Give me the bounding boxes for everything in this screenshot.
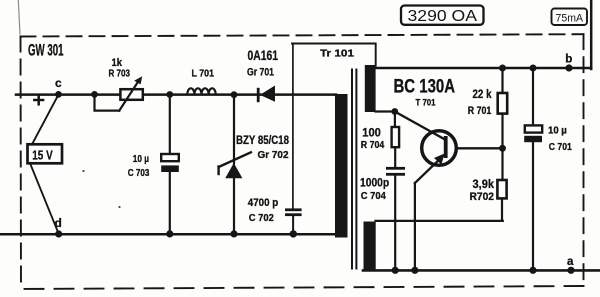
svg-text:Gr 701: Gr 701 [247, 67, 274, 79]
scan speck [82, 170, 84, 172]
node base junction [499, 145, 506, 152]
inductor L701 [187, 69, 215, 95]
svg-text:10 µ: 10 µ [548, 125, 567, 137]
svg-text:L 701: L 701 [192, 69, 215, 80]
resistor R704 100 [361, 112, 399, 168]
svg-text:c: c [55, 76, 62, 90]
svg-text:3290 OA: 3290 OA [408, 8, 478, 25]
polarity plus sign [34, 96, 43, 105]
resistor R701 22k [468, 65, 507, 149]
svg-text:Gr 702: Gr 702 [258, 149, 289, 161]
svg-text:C 704: C 704 [361, 190, 386, 202]
current box 75mA [552, 9, 588, 26]
svg-text:C 702: C 702 [249, 212, 274, 224]
svg-text:R 703: R 703 [109, 69, 131, 80]
svg-text:22 k: 22 k [473, 89, 493, 101]
svg-text:10 µ: 10 µ [133, 153, 149, 165]
title box 3290 OA [401, 6, 484, 26]
svg-text:Tr 101: Tr 101 [320, 48, 354, 60]
svg-text:C 701: C 701 [549, 141, 572, 153]
capacitor C702 4700p with crossover wire to secondary [248, 44, 376, 238]
capacitor C704 1000p [360, 167, 405, 274]
diode Gr701 0A161 [247, 48, 278, 102]
svg-text:100: 100 [362, 127, 381, 139]
svg-text:BC 130A: BC 130A [394, 77, 456, 98]
wire: output b riser to top edge [590, 0, 593, 69]
svg-text:T 701: T 701 [416, 98, 437, 109]
meter pointer wire from node c to 15V box [32, 95, 59, 145]
zener diode Gr702 BZY 85/C18 [219, 91, 290, 237]
potentiometer R703 1k [91, 57, 143, 111]
resistor R702 3,9k [376, 148, 507, 221]
transformer Tr 101 [320, 48, 376, 272]
svg-text:R 701: R 701 [468, 105, 492, 117]
voltage box 15 V [28, 144, 63, 163]
svg-text:75mA: 75mA [556, 12, 584, 24]
scan speck [118, 206, 120, 208]
capacitor C701 10u electrolytic [524, 65, 572, 274]
svg-text:GW 301: GW 301 [28, 42, 64, 60]
svg-text:1k: 1k [112, 57, 123, 69]
wire: secondary b-rail [375, 67, 591, 70]
svg-text:4700 p: 4700 p [248, 197, 279, 209]
node b [565, 54, 572, 72]
svg-text:R702: R702 [470, 191, 495, 203]
node a [567, 256, 575, 274]
transistor T701 BC 130A [394, 77, 503, 274]
wire: primary bottom rail [0, 233, 336, 236]
capacitor C703 10u electrolytic [128, 91, 179, 237]
wire: secondary tap to collector node [376, 110, 395, 112]
svg-text:R 704: R 704 [361, 139, 385, 151]
svg-text:1000p: 1000p [360, 176, 389, 190]
svg-text:C 703: C 703 [128, 168, 150, 179]
svg-text:b: b [565, 54, 572, 66]
svg-text:BZY 85/C18: BZY 85/C18 [236, 133, 289, 147]
node collector junction [391, 108, 398, 115]
wire: secondary a-rail [363, 269, 600, 272]
node d [55, 216, 63, 238]
svg-text:3,9k: 3,9k [473, 179, 495, 191]
svg-text:0A161: 0A161 [248, 48, 279, 63]
svg-text:15 V: 15 V [32, 148, 53, 162]
svg-text:a: a [567, 256, 574, 268]
wire: primary top rail [16, 93, 336, 96]
node c [55, 76, 62, 98]
meter pointer wire from 15V box to node d [30, 163, 59, 234]
